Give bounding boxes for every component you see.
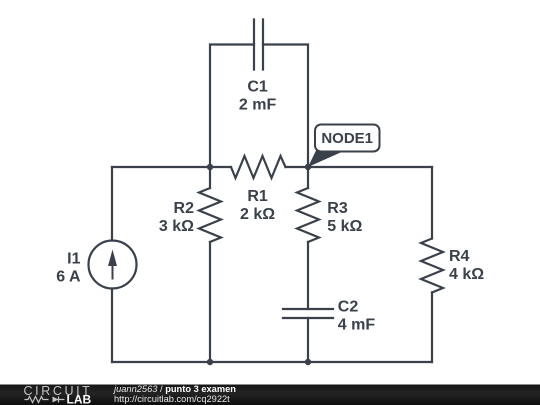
capacitor C1 — [254, 20, 263, 70]
svg-text:R1: R1 — [247, 188, 268, 205]
resistor R4 — [421, 239, 443, 293]
wire R3 top stub — [307, 167, 309, 188]
wire right side top — [431, 167, 433, 239]
wire top loop right — [263, 45, 308, 168]
wire right side bottom — [431, 293, 433, 363]
node bottom-right junction dot — [305, 359, 311, 365]
logo diode — [53, 397, 59, 403]
svg-text:4 kΩ: 4 kΩ — [449, 266, 484, 283]
NODE1 callout pointer — [308, 151, 345, 168]
svg-text:I1: I1 — [67, 250, 80, 267]
wire top loop left — [210, 45, 254, 168]
svg-text:2 mF: 2 mF — [239, 97, 277, 114]
wire C2 bottom — [307, 318, 309, 362]
node bottom-left junction dot — [207, 359, 213, 365]
wire bottom — [112, 361, 432, 363]
current source I1 circle — [89, 241, 137, 289]
capacitor C2 — [283, 309, 333, 318]
svg-text:http://circuitlab.com/cq2922t: http://circuitlab.com/cq2922t — [114, 394, 230, 404]
wire R2 bottom — [209, 242, 211, 362]
logo squiggle resistor — [25, 397, 49, 403]
resistor R2 — [199, 188, 221, 242]
svg-text:5 kΩ: 5 kΩ — [327, 218, 362, 235]
svg-text:3 kΩ: 3 kΩ — [159, 218, 194, 235]
wire left top — [111, 167, 113, 241]
wire middle right — [286, 166, 433, 168]
svg-text:6 A: 6 A — [56, 268, 81, 285]
svg-text:2 kΩ: 2 kΩ — [240, 206, 275, 223]
svg-text:juann2563 / punto 3 examen: juann2563 / punto 3 examen — [112, 384, 236, 394]
current source I1 arrow — [108, 250, 117, 280]
wire R2 top stub — [209, 167, 211, 188]
svg-text:NODE1: NODE1 — [321, 130, 373, 147]
svg-text:R3: R3 — [327, 200, 348, 217]
node A junction dot — [207, 164, 213, 170]
node NODE1 junction dot — [305, 164, 311, 170]
svg-text:4 mF: 4 mF — [338, 316, 376, 333]
wire R3 to C2 — [307, 242, 309, 309]
svg-text:C1: C1 — [247, 79, 268, 96]
svg-text:R4: R4 — [449, 248, 470, 265]
wire middle left — [112, 166, 231, 168]
wire left bottom — [111, 289, 113, 363]
svg-text:R2: R2 — [174, 200, 195, 217]
NODE1 callout box — [315, 125, 380, 152]
svg-text:C2: C2 — [338, 298, 359, 315]
svg-text:LAB: LAB — [67, 393, 92, 405]
resistor R1 — [231, 156, 286, 178]
resistor R3 — [297, 188, 319, 242]
